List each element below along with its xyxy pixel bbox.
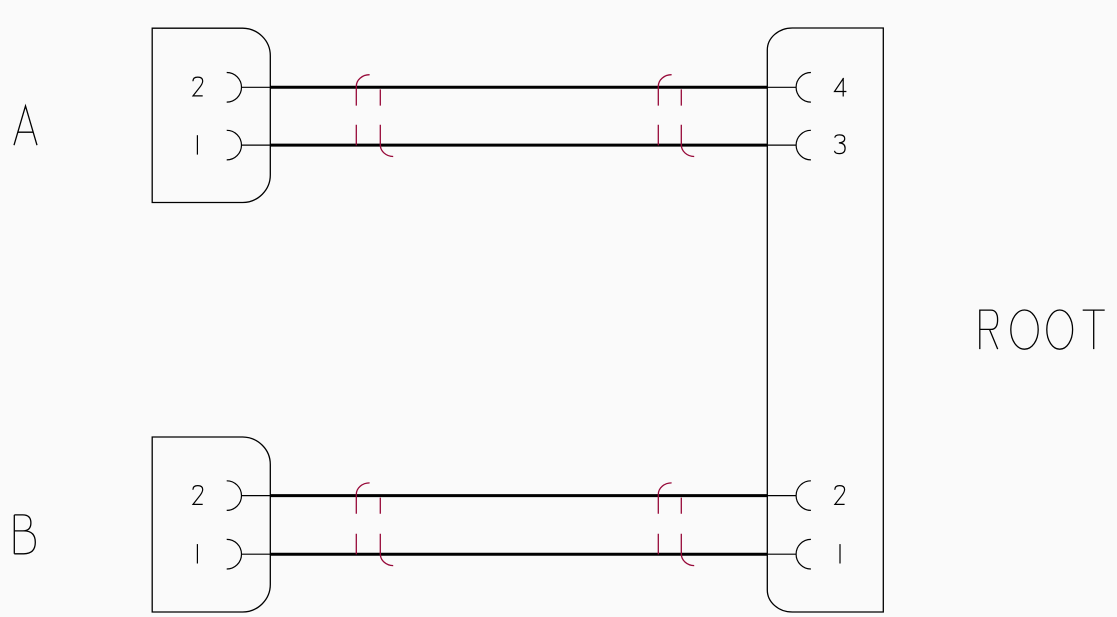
twisted-pair marker 1 (top pair, left) [356, 75, 393, 157]
node label A [14, 106, 37, 145]
pin ROOT-3 lead wire [767, 144, 796, 146]
wire A2 to ROOT4 [270, 86, 767, 89]
pin B-1 label "1" [196, 544, 198, 563]
pin ROOT-4 lead wire [767, 86, 796, 88]
pin ROOT-3 label "3" [835, 135, 846, 154]
pin B-2 arc [227, 481, 242, 511]
connector A [152, 28, 270, 202]
pin B-1 arc [227, 539, 242, 569]
pin ROOT-1 arc [796, 539, 811, 569]
pin ROOT-2 lead wire [767, 495, 796, 497]
twisted-pair marker 4 (bottom pair, right) [658, 483, 694, 566]
pin ROOT-4 label "4" [835, 78, 847, 97]
pin A-2 label "2" [193, 77, 203, 96]
pin ROOT-2 arc [796, 481, 811, 511]
wire B1 to ROOT1 [270, 553, 767, 556]
wire A1 to ROOT3 [270, 144, 767, 147]
net label ROOT : O [1011, 310, 1038, 349]
twisted-pair marker 2 (top pair, right) [658, 75, 694, 157]
pin A-2 lead wire [242, 86, 271, 88]
connector ROOT [767, 28, 883, 612]
pin A-1 lead wire [242, 144, 271, 146]
net label ROOT : T [1083, 310, 1105, 349]
pin ROOT-3 arc [796, 130, 811, 160]
pin A-1 label "1" [196, 135, 198, 154]
net label ROOT : R [980, 310, 998, 349]
pin ROOT-4 arc [796, 73, 811, 103]
pin B-2 label "2" [193, 486, 203, 505]
pin B-2 lead wire [242, 495, 271, 497]
twisted-pair marker 3 (bottom pair, left) [356, 483, 393, 566]
pin ROOT-1 label "1" [839, 544, 841, 563]
pin A-2 arc [227, 73, 242, 103]
pin B-1 lead wire [242, 553, 271, 555]
pin ROOT-1 lead wire [767, 553, 796, 555]
pin A-1 arc [227, 130, 242, 160]
net label ROOT : O [1047, 310, 1073, 349]
connector B [152, 437, 270, 612]
wire B2 to ROOT2 [270, 494, 767, 497]
pin ROOT-2 label "2" [835, 486, 845, 505]
node label B [14, 515, 35, 554]
